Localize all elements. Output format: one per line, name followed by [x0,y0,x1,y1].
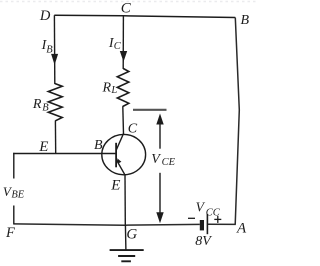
svg-text:R: R [32,97,42,112]
wire: emitter down to G [124,175,126,225]
VCE arrow head down [156,212,163,223]
svg-text:BE: BE [11,189,24,200]
wire: dotted page border top [0,1,258,3]
wire: left side lower segment above F [13,206,15,225]
battery plus sign [214,218,221,220]
resistor RB [48,84,62,121]
svg-text:CC: CC [206,207,221,218]
voltage label VBE [0,180,28,204]
battery VCC negative plate [200,220,204,230]
svg-text:B: B [46,45,53,56]
svg-text:D: D [39,8,51,24]
battery minus sign [188,217,195,219]
svg-text:B: B [94,138,103,153]
svg-text:C: C [128,122,138,137]
transistor Q1 circle [102,134,146,174]
wire: C branch vertical through IC arrow [122,16,124,69]
svg-text:V: V [151,152,161,167]
svg-text:F: F [5,225,15,241]
transistor Q1 emitter stroke [116,160,125,175]
wire: G to ground stub [124,225,127,250]
svg-text:CE: CE [162,157,176,168]
svg-text:C: C [121,1,132,17]
wire: base horizontal E to transistor [13,153,116,155]
transistor Q1 collector stroke [116,133,124,150]
current arrow IC [120,51,127,62]
ground bar 2 [118,255,135,257]
wire: RL bottom to collector [122,106,125,134]
wire: D branch vertical through IB arrow [53,15,55,84]
ground bar 3 [121,260,131,262]
svg-text:E: E [110,177,120,193]
svg-text:B: B [241,13,250,28]
battery VCC positive plate [206,214,208,234]
wire: RB bottom to base rail [54,121,56,155]
svg-text:C: C [114,41,122,52]
current arrow IB [51,54,58,65]
svg-text:V: V [196,199,206,214]
transistor Q1 emitter arrow [117,158,121,163]
resistor RL [117,69,129,107]
wire: top rail D to C to B corner [54,15,235,17]
svg-text:B: B [42,102,49,113]
svg-text:R: R [102,80,112,95]
node bar above VCE arrow [133,109,167,111]
wire: battery plus to corner A [207,223,235,225]
svg-text:G: G [126,227,137,243]
VCE arrow shaft lower [159,173,161,214]
wire: left side upper segment below E node [13,153,15,179]
wire: bottom rail F to battery [14,224,200,225]
transistor Q1 base bar [115,143,117,168]
svg-text:L: L [110,85,117,96]
svg-text:A: A [236,220,247,236]
wire: right side B to A [235,18,239,225]
ground bar 1 [110,249,144,251]
svg-text:8V: 8V [195,234,212,249]
VCE arrow head up [156,114,163,125]
VCE arrow shaft upper [159,122,161,149]
svg-text:E: E [38,139,48,155]
